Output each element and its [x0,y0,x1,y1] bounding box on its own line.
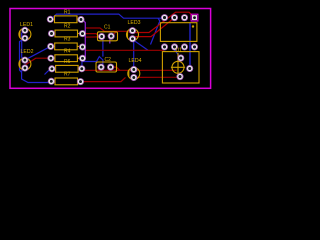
pads C1 [98,33,105,40]
svg-text:LED3: LED3 [128,20,141,26]
op-amp U1 DIP body [160,23,197,42]
wire red horizontal into C1 left pad [85,36,101,38]
svg-text:R7: R7 [64,72,71,78]
pads trimpot [177,55,184,62]
LED3 [127,29,139,41]
wire blue LED3 bottom to LED4 top [133,39,134,70]
wire blue bus top: R1 left pad to U1 pin pad top-left [51,14,165,19]
resistor R1 [53,16,79,23]
svg-text:R1: R1 [64,10,71,16]
svg-text:LED1: LED1 [20,22,33,28]
svg-text:C1: C1 [104,25,111,31]
pads R3 [47,43,54,50]
pads LED1 [21,27,28,34]
resistor R7 [53,78,79,85]
pads LED3 [129,27,136,34]
pads C2 [98,64,105,71]
svg-text:LED4: LED4 [129,58,142,64]
wire blue C1 left pad down [102,37,103,57]
board outline [10,9,211,89]
wire red C1 right pad jog [111,31,116,36]
wire red C2 right pad jog [111,67,120,70]
wire blue LED2 top to R3 left pad [26,46,51,59]
wire blue vertical via U1 body to trimpot middle pad [189,23,191,68]
resistor R4 [53,55,79,62]
svg-text:R2: R2 [64,24,71,30]
svg-text:R3: R3 [64,37,71,43]
trimpot R5 body [162,52,199,83]
pads R2 [48,30,55,37]
wire blue stub into R6 left pad [45,69,52,75]
pads R6 [48,65,55,72]
pads R4 [47,55,54,62]
wire blue diagonal from top bus down near U1 [151,18,160,44]
wire red LED3 top to U1 top pin 4 [136,12,195,32]
wire red R6 right pad to trimpot row [82,69,177,71]
wire blue LED1 bottom down left side [20,38,25,72]
wire blue LED2 bottom to R7 left pad [22,68,52,83]
pad U1 pin 1 square [191,14,198,21]
wire red R3 right pad long horizontal to U1 bottom pin 1 [83,47,165,50]
wire red R7 right pad to LED4 row [83,77,126,81]
LED4 [128,68,140,80]
pads LED4 [130,66,137,73]
resistor R3 [53,43,79,50]
svg-text:R6: R6 [64,59,71,65]
wire purple vertical from R1 right pad down [83,20,86,60]
wire red LED2 bottom to R4 left pad [25,58,51,68]
pads R1 [47,16,54,23]
pin 1 dot [192,25,194,27]
wire red R1 net horizontal to C1 right region and LED3 top [85,28,135,33]
pads R7 [48,78,55,85]
wire red LED3 bottom to U1 top pin 2 [133,18,175,39]
wire red LED4 bottom to trimpot bottom pad [134,76,180,79]
wire blue diagonal LED3 area [134,41,148,51]
wire purple stub below C1 [109,40,111,44]
capacitor C2 [96,62,117,72]
wire blue LED1 top to LED2 top [22,30,25,60]
wire red R2 right pad to C1 left pad [83,34,102,37]
svg-text:R4: R4 [64,48,71,54]
svg-text:U1: U1 [176,48,183,54]
svg-text:C2: C2 [105,57,112,63]
resistor R6 [54,65,80,72]
wire blue U1 pad to trimpot top pad [173,47,180,58]
resistor R2 [53,30,79,37]
wire blue R6 right pad up and over to C2 left pad [82,57,103,69]
LED2 [19,58,31,70]
svg-text:LED2: LED2 [21,49,34,55]
pads U1 bottom row [161,43,168,50]
LED1 [19,28,31,40]
capacitor C1 [98,32,118,41]
pads LED2 [21,57,28,64]
pads U1 top row [161,14,168,21]
